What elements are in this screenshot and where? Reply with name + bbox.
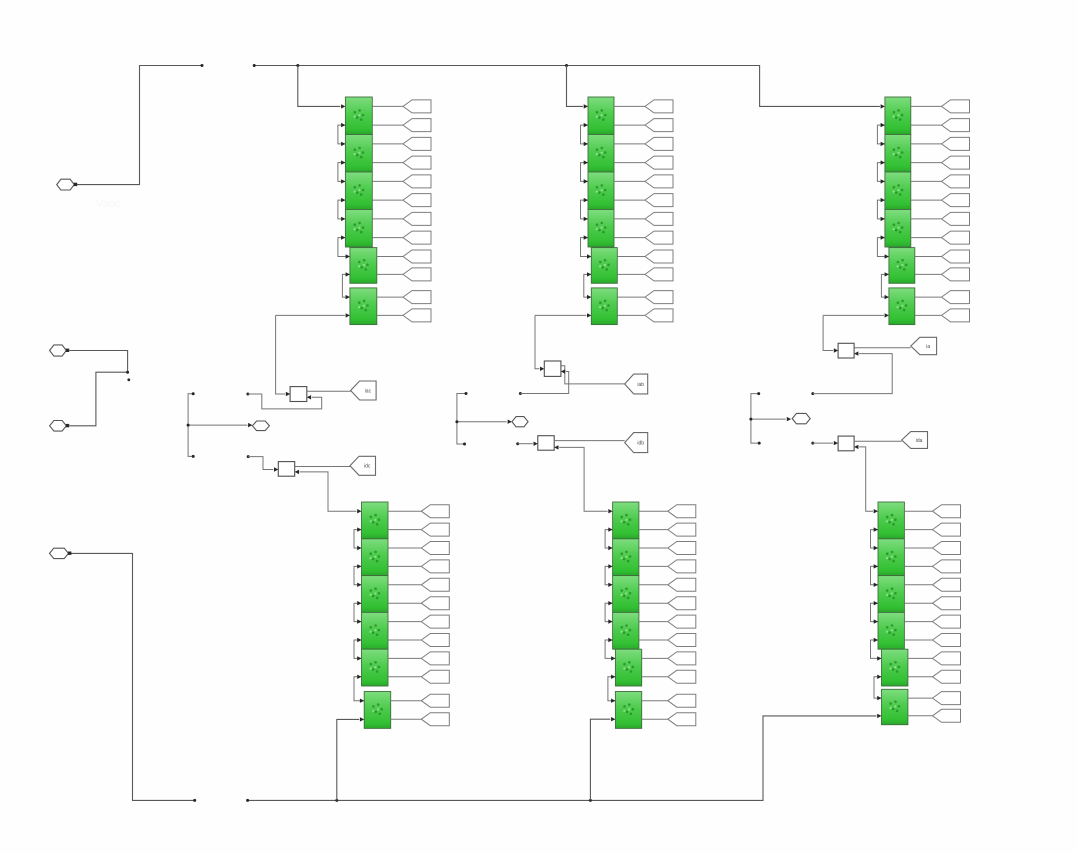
svg-text:iab: iab bbox=[637, 382, 644, 388]
svg-text:ia: ia bbox=[926, 344, 930, 350]
svg-text:idb: idb bbox=[637, 440, 644, 446]
svg-text:idc: idc bbox=[364, 464, 371, 470]
svg-text:Vabc: Vabc bbox=[96, 198, 121, 210]
svg-text:ida: ida bbox=[916, 438, 923, 444]
svg-text:iac: iac bbox=[365, 388, 372, 394]
